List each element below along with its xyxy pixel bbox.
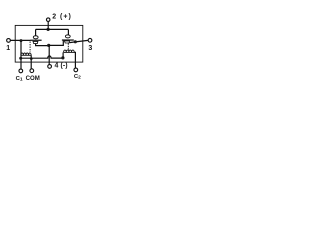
wire right drain drop (67, 29, 69, 35)
wire terminal 1 lead (10, 39, 30, 41)
inductor L1 baseline (21, 54, 31, 56)
node right coil junction dot (61, 56, 64, 59)
terminal C1 circle (19, 69, 23, 73)
terminal COM circle (30, 69, 34, 73)
node L1 left junction dot (19, 57, 22, 60)
wire L2 left lead (62, 52, 64, 58)
inductor L2 baseline (64, 51, 75, 53)
wire C1 riser (20, 41, 22, 70)
transistor Q2 trapezoid (64, 41, 69, 43)
node COM crossing dot (30, 57, 33, 60)
wire left drain drop (35, 29, 37, 36)
wire internal top bus (36, 28, 69, 30)
svg-text:2 (+): 2 (+) (52, 14, 72, 21)
svg-text:C1: C1 (16, 76, 23, 83)
wire gate bus with hop (21, 56, 63, 58)
terminal 3 circle (88, 38, 92, 42)
wire terminal 4 vertical (48, 45, 50, 64)
wire Q2 source to terminal 3 (70, 40, 88, 42)
transistor Q2 oval (65, 35, 70, 38)
mechanical linkage dashed right (67, 43, 69, 50)
inductor L1 coil (21, 53, 31, 55)
terminal 2 circle (46, 18, 50, 22)
svg-text:1: 1 (6, 45, 10, 52)
transistor Q2 bar (62, 39, 74, 40)
svg-text:3: 3 (88, 45, 92, 52)
node terminal 1 junction dot (20, 39, 23, 42)
wire Q1 source lead (36, 44, 49, 46)
terminal C2 circle (74, 68, 78, 72)
wire COM lead (30, 55, 32, 69)
wire gate jog to Q2 (49, 41, 64, 46)
svg-text:COM: COM (26, 75, 40, 82)
node terminal 3 junction dot (74, 40, 77, 43)
terminal 4 circle (48, 65, 52, 69)
transistor Q1 trapezoid (33, 41, 38, 43)
svg-text:4 (-): 4 (-) (55, 62, 68, 69)
package outline box (15, 25, 83, 62)
terminal 1 circle (7, 39, 11, 43)
wire terminal 2 lead (47, 21, 49, 29)
node bus junction dot (47, 28, 50, 31)
mechanical linkage dashed left (29, 42, 31, 53)
node gate junction dot (47, 44, 50, 47)
transistor Q1 bar (30, 40, 41, 41)
svg-text:C2: C2 (74, 74, 81, 81)
transistor Q1 oval (33, 36, 38, 39)
inductor L2 coil (64, 50, 75, 52)
wire C2 lead (74, 52, 75, 68)
